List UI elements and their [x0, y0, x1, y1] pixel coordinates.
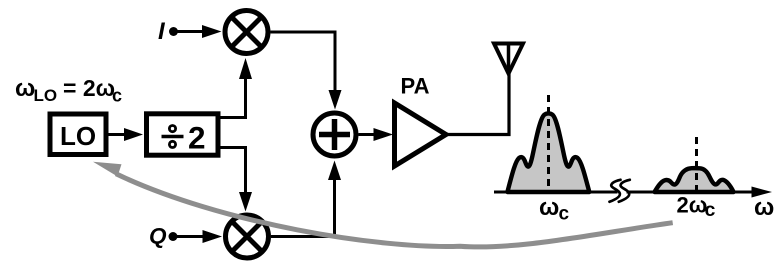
label omega_LO = 2 omega_c: [15, 75, 122, 106]
wire I to mixer with arrow: [176, 25, 222, 38]
label omega_c: [539, 194, 570, 225]
svg-text:PA: PA: [401, 74, 430, 99]
svg-text:ω: ω: [754, 194, 774, 221]
svg-text:c: c: [112, 86, 122, 106]
amplifier PA: [395, 74, 447, 167]
wire divider upper output to mixer I: [221, 58, 253, 118]
antenna: [494, 44, 523, 74]
divider /2 box: [147, 114, 219, 156]
svg-text:LO: LO: [34, 86, 58, 105]
spectrum axis right segment with arrow: [627, 187, 773, 198]
spectrum hump at omega_c: [507, 113, 589, 192]
svg-text:2ω: 2ω: [677, 193, 708, 218]
wire divider lower output to mixer Q: [221, 148, 253, 212]
dashed line at omega_c: [547, 95, 550, 190]
svg-text:2: 2: [188, 120, 206, 156]
svg-text:Q: Q: [149, 224, 167, 249]
wire mixer I to summer: [271, 32, 342, 110]
svg-text:ω: ω: [539, 194, 559, 221]
axis break squiggles: [610, 180, 630, 202]
svg-text:= 2ω: = 2ω: [63, 75, 115, 101]
wire summer to PA with arrow: [359, 128, 394, 141]
mixer I (top multiplier): [225, 11, 268, 54]
svg-text:c: c: [559, 204, 570, 225]
wire LO to divider with arrow: [109, 128, 144, 141]
spectrum hump at 2 omega_c: [655, 168, 734, 192]
label 2 omega_c: [677, 193, 716, 222]
summer (plus circle): [313, 113, 356, 156]
injection pulling gray curve arrow: [93, 162, 673, 247]
spectrum axis left segment: [494, 191, 618, 194]
svg-text:I: I: [158, 18, 166, 45]
svg-text:ω: ω: [15, 75, 35, 102]
oscillator LO box: [50, 114, 106, 155]
wire PA to antenna: [446, 73, 509, 135]
wire mixer Q to summer: [271, 161, 341, 237]
mixer Q (bottom multiplier): [226, 215, 269, 258]
node I dot: [169, 27, 178, 36]
svg-text:LO: LO: [60, 121, 96, 151]
wire Q to mixer with arrow: [176, 230, 222, 243]
dashed line at 2 omega_c: [695, 137, 698, 190]
svg-text:c: c: [705, 199, 716, 221]
node Q dot: [169, 232, 178, 241]
